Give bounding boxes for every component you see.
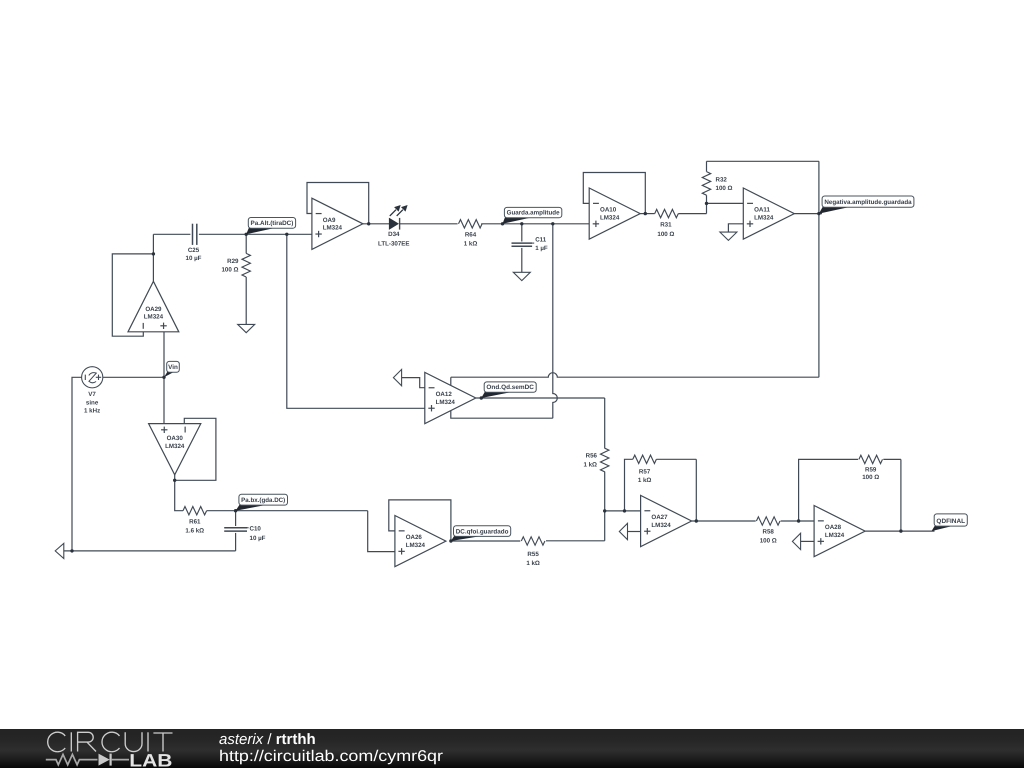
- svg-text:100 Ω: 100 Ω: [760, 538, 777, 545]
- svg-text:10 µF: 10 µF: [186, 255, 202, 262]
- svg-text:Vin: Vin: [168, 364, 178, 371]
- svg-text:1 kΩ: 1 kΩ: [464, 241, 478, 248]
- svg-text:R56: R56: [586, 453, 598, 460]
- svg-text:R32: R32: [716, 176, 728, 183]
- svg-text:asterix / rtrthh: asterix / rtrthh: [219, 731, 316, 748]
- svg-text:1 µF: 1 µF: [535, 245, 548, 252]
- svg-text:1 kΩ: 1 kΩ: [583, 462, 597, 469]
- svg-text:C25: C25: [188, 247, 200, 254]
- svg-text:OA11: OA11: [754, 207, 770, 214]
- svg-text:Ond.Qd.semDC: Ond.Qd.semDC: [486, 384, 534, 391]
- svg-text:R64: R64: [465, 231, 477, 238]
- svg-text:C10: C10: [250, 526, 262, 533]
- svg-text:LTL-307EE: LTL-307EE: [378, 241, 410, 248]
- svg-text:OA26: OA26: [406, 534, 423, 541]
- svg-text:Guarda.amplitude: Guarda.amplitude: [507, 210, 560, 217]
- svg-text:R29: R29: [227, 258, 239, 265]
- svg-text:100 Ω: 100 Ω: [657, 231, 674, 238]
- svg-text:100 Ω: 100 Ω: [221, 266, 238, 273]
- svg-text:QDFINAL: QDFINAL: [936, 518, 965, 525]
- svg-text:Negativa.amplitude.guardada: Negativa.amplitude.guardada: [824, 199, 912, 206]
- svg-text:100 Ω: 100 Ω: [716, 185, 733, 192]
- svg-text:1 kΩ: 1 kΩ: [638, 477, 652, 484]
- svg-text:LM324: LM324: [323, 225, 343, 232]
- svg-text:1 kHz: 1 kHz: [84, 407, 100, 414]
- svg-text:R31: R31: [660, 222, 672, 229]
- svg-text:R61: R61: [189, 519, 201, 526]
- svg-text:LM324: LM324: [825, 532, 845, 539]
- svg-text:LM324: LM324: [754, 214, 774, 221]
- svg-text:http://circuitlab.com/cymr6qr: http://circuitlab.com/cymr6qr: [219, 748, 443, 765]
- svg-text:V7: V7: [88, 391, 96, 398]
- svg-text:D34: D34: [388, 231, 400, 238]
- svg-text:OA9: OA9: [323, 217, 336, 224]
- svg-text:DC.qfoi.guardado: DC.qfoi.guardado: [456, 528, 509, 535]
- svg-text:1 kΩ: 1 kΩ: [526, 560, 540, 567]
- svg-text:LM324: LM324: [600, 214, 620, 221]
- svg-text:LAB: LAB: [129, 751, 172, 768]
- svg-text:OA30: OA30: [167, 435, 184, 442]
- svg-text:OA28: OA28: [825, 524, 842, 531]
- svg-text:Pa.bx.(gda.DC): Pa.bx.(gda.DC): [241, 497, 285, 504]
- svg-text:LM324: LM324: [406, 542, 426, 549]
- svg-text:C11: C11: [535, 236, 547, 243]
- svg-text:sine: sine: [86, 399, 99, 406]
- svg-text:10 µF: 10 µF: [250, 535, 266, 542]
- svg-text:LM324: LM324: [436, 399, 456, 406]
- svg-text:LM324: LM324: [651, 522, 671, 529]
- svg-text:R57: R57: [639, 469, 651, 476]
- svg-text:R58: R58: [763, 529, 775, 536]
- svg-text:R59: R59: [865, 466, 877, 473]
- svg-text:LM324: LM324: [165, 443, 185, 450]
- svg-text:OA10: OA10: [600, 207, 617, 214]
- svg-text:LM324: LM324: [144, 314, 164, 321]
- svg-text:OA29: OA29: [145, 306, 162, 313]
- svg-text:OA12: OA12: [436, 391, 453, 398]
- svg-text:1.6 kΩ: 1.6 kΩ: [185, 527, 204, 534]
- svg-text:Pa.Alt.(tiraDC): Pa.Alt.(tiraDC): [251, 220, 294, 227]
- svg-text:R55: R55: [527, 551, 539, 558]
- svg-text:OA27: OA27: [651, 514, 668, 521]
- svg-text:100 Ω: 100 Ω: [862, 474, 879, 481]
